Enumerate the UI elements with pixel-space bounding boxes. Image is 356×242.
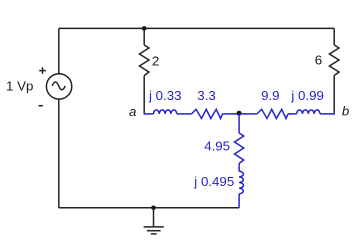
voltage source sine wave xyxy=(52,82,65,90)
plus sign of source xyxy=(39,67,46,74)
wire inductor j0.495 to bottom wire xyxy=(238,194,240,208)
resistor 4.95 xyxy=(235,133,244,164)
svg-text:b: b xyxy=(342,104,349,119)
voltage source V1 circle xyxy=(46,74,71,99)
wire right vertical lower (resistor 6 to node b) xyxy=(333,76,335,113)
wire middle junction to resistor 9.9 xyxy=(239,113,257,115)
wire top from source to right side xyxy=(59,27,334,29)
wire resistor 9.9 to inductor j0.99 xyxy=(288,113,297,115)
ground bar 3 xyxy=(151,233,157,235)
wire left vertical upper (source top to top wire) xyxy=(58,28,60,73)
middle junction dot (blue) xyxy=(237,111,242,116)
wire right vertical upper (top wire to resistor 6) xyxy=(333,28,335,45)
wire resistor 3.3 to middle junction xyxy=(223,113,240,115)
svg-text:a: a xyxy=(129,104,136,119)
wire inductor j0.99 to node b xyxy=(320,112,334,114)
minus sign of source xyxy=(39,105,43,107)
svg-text:j 0.495: j 0.495 xyxy=(193,174,234,189)
ground stub xyxy=(153,208,155,227)
wire left vertical lower (source bottom to bottom wire) xyxy=(58,99,60,208)
svg-text:4.95: 4.95 xyxy=(204,138,230,153)
inductor j0.99 xyxy=(297,110,320,114)
resistor 6 xyxy=(329,45,339,76)
ground bar 2 xyxy=(147,230,161,232)
inductor j0.33 xyxy=(153,110,176,114)
wire mid vertical from top junction to resistor 2 xyxy=(143,28,145,45)
wire inductor j0.33 to resistor 3.3 xyxy=(177,113,192,115)
inductor j0.495 xyxy=(239,171,243,194)
wire resistor 2 bottom to node a xyxy=(143,76,145,114)
ground bar 1 xyxy=(144,226,164,228)
junction dot bottom (ground tap) xyxy=(151,206,156,211)
junction dot top xyxy=(142,26,147,31)
svg-text:j 0.99: j 0.99 xyxy=(290,88,324,103)
wire blue from node a to inductor j0.33 xyxy=(144,113,154,115)
svg-text:6: 6 xyxy=(315,52,322,67)
svg-text:1 Vp: 1 Vp xyxy=(6,78,33,93)
svg-text:2: 2 xyxy=(152,54,159,69)
resistor 2 xyxy=(139,45,149,76)
wire bottom xyxy=(59,207,239,209)
svg-text:j 0.33: j 0.33 xyxy=(148,88,182,103)
wire middle junction down to resistor 4.95 xyxy=(238,114,240,133)
wire resistor 4.95 to inductor j0.495 xyxy=(238,164,240,172)
svg-text:3.3: 3.3 xyxy=(197,88,216,103)
resistor 3.3 xyxy=(192,109,223,118)
resistor 9.9 xyxy=(257,109,288,118)
svg-text:9.9: 9.9 xyxy=(261,88,280,103)
